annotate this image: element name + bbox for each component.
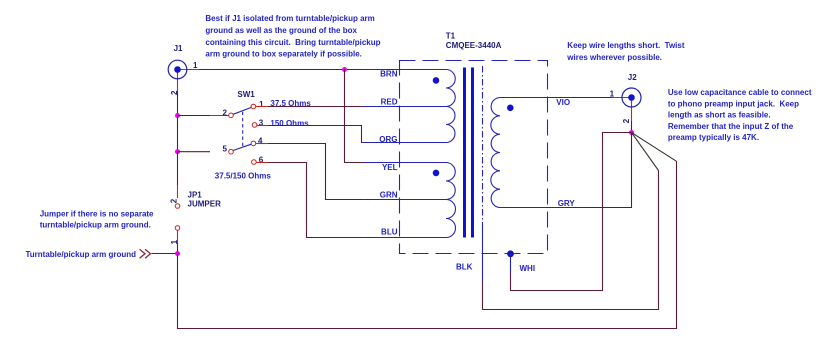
- svg-text:length as short as feasible.: length as short as feasible.: [668, 111, 771, 120]
- junction node B: [175, 113, 180, 118]
- T1 winding BRN-RED: [446, 70, 455, 107]
- T1 pin WHI lead: [510, 254, 512, 273]
- SW1 pin 2 stub: [210, 115, 229, 117]
- wire GRY riser to junction E: [573, 133, 632, 208]
- pin 2 of J2: [622, 98, 632, 124]
- wire BLK riser: [483, 171, 659, 310]
- SW1 contact 4: [251, 141, 256, 146]
- off-page connector chevron: [140, 249, 151, 258]
- note: keep-wires annotation: [566, 41, 685, 62]
- T1 winding RED-ORG: [446, 107, 455, 143]
- svg-text:Turntable/pickup arm ground: Turntable/pickup arm ground: [26, 250, 137, 259]
- pin 1 of J2: [610, 90, 632, 99]
- wire J1 pin1 to T1 BRN: [199, 69, 363, 71]
- svg-text:containing this circuit. Brin: containing this circuit. Bring turntable…: [205, 38, 380, 47]
- T1 pin RED lead: [363, 106, 446, 108]
- T1 pin ORG lead: [363, 142, 446, 144]
- wire chevron to junction D: [152, 253, 178, 255]
- svg-text:37.5/150 Ohms: 37.5/150 Ohms: [215, 171, 272, 180]
- T1 pin BLK lead: [482, 227, 484, 281]
- svg-text:ground as well as the ground o: ground as well as the ground of the box: [205, 26, 357, 35]
- junction node C: [175, 149, 180, 154]
- svg-text:arm ground to box separately i: arm ground to box separately if possible…: [205, 50, 361, 59]
- svg-text:SW1: SW1: [237, 90, 255, 99]
- SW1 contact 3: [252, 123, 257, 128]
- svg-text:T1: T1: [446, 31, 456, 40]
- svg-text:Best if J1 isolated from turnt: Best if J1 isolated from turntable/picku…: [205, 14, 374, 23]
- T1 winding GRN-BLU: [446, 200, 456, 238]
- wire VIO to J2 pin1: [573, 97, 612, 99]
- pin 1 of J1: [178, 61, 200, 70]
- T1 phase dot primary 2: [433, 170, 440, 177]
- svg-text:BLK: BLK: [456, 262, 473, 271]
- JP1 pin 1 circle: [175, 226, 180, 231]
- svg-text:JP1: JP1: [188, 191, 203, 200]
- SW1 contact 2: [229, 113, 234, 118]
- svg-text:to phono preamp input jack. K: to phono preamp input jack. Keep: [668, 99, 799, 108]
- wire SW1-3 to T1 ORG: [268, 126, 363, 143]
- T1 dashed outline box: [400, 61, 548, 254]
- T1 pin BLU lead: [363, 237, 446, 239]
- svg-text:RED: RED: [381, 98, 398, 107]
- connector J1: [168, 44, 187, 79]
- SW1 linkage dashed: [242, 112, 244, 147]
- svg-text:2: 2: [622, 118, 631, 123]
- wire SW1-1 to T1 RED: [268, 106, 363, 108]
- T1 winding YEL-GRN: [446, 163, 455, 200]
- jumper JP1: [188, 191, 222, 209]
- svg-text:Remember that the input Z of t: Remember that the input Z of the: [668, 122, 794, 131]
- wire SW1-4 to T1 GRN: [268, 144, 363, 200]
- T1 phase dot secondary: [507, 105, 514, 112]
- svg-text:JUMPER: JUMPER: [188, 200, 222, 209]
- junction node E: [629, 130, 634, 135]
- T1 shield dash-dot: [482, 66, 484, 227]
- SW1 pin 3 stub: [257, 125, 268, 127]
- wire J1 pin2 down to SW1: [177, 91, 179, 116]
- wire branch to T1 YEL: [345, 70, 364, 163]
- junction node D: [175, 251, 180, 256]
- svg-text:1: 1: [259, 100, 264, 109]
- svg-text:2: 2: [170, 198, 179, 203]
- T1 core line right: [471, 68, 474, 238]
- svg-text:VIO: VIO: [556, 98, 570, 107]
- svg-text:3: 3: [259, 118, 264, 127]
- wire J2 pin2 to junction E: [631, 121, 633, 133]
- svg-text:J1: J1: [174, 44, 183, 53]
- wire junction E to WHI riser: [511, 133, 632, 291]
- wire junction B to junction C: [177, 116, 179, 152]
- svg-text:wires wherever possible.: wires wherever possible.: [566, 53, 662, 62]
- svg-text:ORG: ORG: [379, 135, 397, 144]
- note: jumper annotation: [40, 209, 154, 229]
- SW1 contact 6: [252, 160, 257, 165]
- junction node A (J1 hot branch): [342, 67, 347, 72]
- JP1 pin 2 circle: [175, 204, 180, 209]
- svg-text:2: 2: [223, 109, 228, 118]
- connector J2: [622, 73, 641, 107]
- T1 pin GRN lead: [363, 199, 446, 201]
- T1 pin YEL lead: [363, 162, 446, 164]
- SW1 pin 6 stub: [256, 162, 268, 164]
- svg-text:Use low capacitance cable to c: Use low capacitance cable to connect: [668, 88, 812, 97]
- T1 core line left: [463, 68, 466, 238]
- wire to SW1 common 5: [178, 151, 211, 153]
- T1 pin GRY lead: [500, 207, 573, 209]
- SW1 contact 1: [251, 104, 256, 109]
- T1 pin VIO lead: [500, 97, 573, 99]
- svg-text:150 Ohms: 150 Ohms: [270, 119, 309, 128]
- svg-text:YEL: YEL: [382, 163, 398, 172]
- pin 2 of J1: [170, 70, 179, 96]
- svg-text:Keep wire lengths short. Twis: Keep wire lengths short. Twist: [567, 41, 685, 50]
- svg-text:WHI: WHI: [520, 264, 536, 273]
- svg-text:turntable/pickup arm ground.: turntable/pickup arm ground.: [40, 221, 151, 230]
- SW1 pin 4 stub: [256, 143, 268, 145]
- svg-text:preamp typically is 47K.: preamp typically is 47K.: [668, 133, 759, 142]
- T1 phase dot primary 1: [433, 77, 440, 84]
- SW1 pin 1 stub: [256, 106, 268, 108]
- svg-text:J2: J2: [628, 73, 637, 82]
- svg-text:6: 6: [259, 156, 264, 165]
- svg-text:GRN: GRN: [380, 191, 398, 200]
- transformer T1: [446, 31, 502, 50]
- svg-text:BRN: BRN: [380, 69, 398, 78]
- JP1 pin 1 stub: [177, 230, 179, 243]
- svg-text:5: 5: [223, 145, 228, 154]
- svg-text:1: 1: [193, 61, 198, 70]
- wire diagonal junction E to BLK riser: [632, 133, 659, 171]
- SW1 blade pole 1: [233, 107, 251, 114]
- svg-text:CMQEE-3440A: CMQEE-3440A: [446, 41, 502, 50]
- svg-text:Jumper if there is no separate: Jumper if there is no separate: [40, 209, 154, 218]
- svg-text:BLU: BLU: [381, 228, 398, 237]
- JP1 pin 2 stub: [177, 185, 179, 198]
- wire to SW1 common 2: [178, 115, 211, 117]
- T1 pin WHI junction dot: [507, 250, 514, 257]
- wire diagonal junction E to ground riser: [632, 133, 677, 162]
- T1 secondary winding: [491, 98, 500, 208]
- note: best-if annotation: [205, 14, 380, 58]
- wire SW1-6 to T1 BLU: [268, 163, 363, 238]
- wire ground bus bottom: [178, 161, 677, 328]
- SW1 blade pole 2: [233, 144, 251, 150]
- wire JP1 pin1 to junction D: [177, 243, 179, 254]
- svg-text:4: 4: [258, 137, 263, 146]
- wire junction C down to JP1 pin 2: [177, 152, 179, 185]
- SW1 contact 5: [229, 149, 234, 154]
- T1 pin BRN lead: [363, 69, 446, 71]
- svg-text:GRY: GRY: [558, 199, 576, 208]
- note: low-capacitance annotation: [668, 88, 812, 142]
